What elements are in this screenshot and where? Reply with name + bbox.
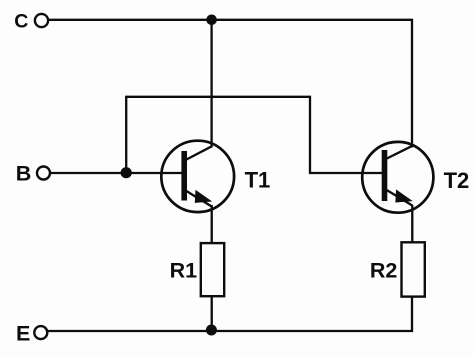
wire T1 emitter to R1 xyxy=(211,205,213,245)
resistor R1 xyxy=(201,243,224,296)
resistor R2 xyxy=(402,242,425,296)
wire E rail and riser to R2 xyxy=(48,295,413,331)
svg-text:E: E xyxy=(16,322,30,346)
svg-text:R2: R2 xyxy=(370,259,398,283)
wire B to T1 base xyxy=(50,172,185,174)
svg-text:B: B xyxy=(16,162,32,186)
wire B junction riser xyxy=(125,97,127,173)
svg-text:T2: T2 xyxy=(444,168,470,193)
terminal C xyxy=(35,14,48,27)
wire base jumper to T2 xyxy=(125,97,383,173)
wire T1 collector drop xyxy=(210,20,212,148)
transistor T1 xyxy=(161,141,234,212)
terminal B xyxy=(37,167,50,180)
terminal E xyxy=(34,326,47,339)
node junction E/R1 xyxy=(206,325,217,336)
wire C rail drop to T2 collector xyxy=(411,19,413,148)
node junction C/T1 xyxy=(206,14,217,25)
wire C rail xyxy=(48,19,412,21)
wire R1 to E rail xyxy=(211,295,213,331)
transistor T2 xyxy=(362,142,433,213)
node junction B/T1/T2 bases xyxy=(121,167,132,178)
svg-text:C: C xyxy=(14,10,28,32)
svg-text:R1: R1 xyxy=(170,259,198,283)
wire T2 emitter to R2 xyxy=(411,205,413,245)
svg-text:T1: T1 xyxy=(245,168,271,193)
